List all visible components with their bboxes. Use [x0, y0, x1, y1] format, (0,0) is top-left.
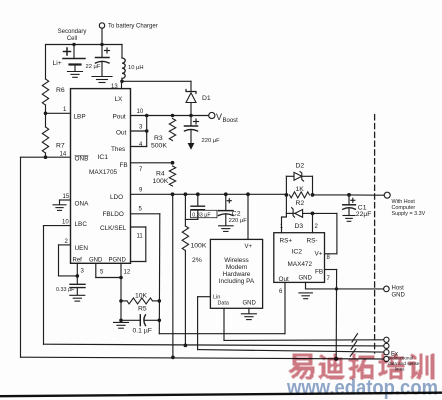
wire: UEN to Ref	[59, 239, 78, 276]
pin 6 label IC2 Out	[279, 289, 283, 295]
wire: Ref pin chain	[77, 263, 84, 284]
wire: LX to pin 13	[111, 81, 122, 90]
svg-text:GND: GND	[299, 276, 313, 282]
terminal: ONB line	[384, 356, 389, 361]
svg-text:100K: 100K	[191, 243, 207, 250]
svg-text:Cell: Cell	[67, 36, 77, 42]
wire: ONA pin 15	[60, 194, 71, 204]
node: 100K on LBO bus	[184, 344, 188, 348]
terminal: Host GND	[384, 286, 406, 299]
svg-text:IC1: IC1	[98, 154, 109, 161]
svg-text:LX: LX	[115, 96, 124, 103]
wire: IC2 FB to bus	[325, 270, 337, 359]
svg-text:Including PA: Including PA	[219, 278, 255, 285]
svg-text:Host: Host	[392, 286, 405, 292]
node: battery positive junction	[72, 43, 75, 46]
wire: supply rail to terminal	[313, 194, 384, 196]
capacitor 220uF output	[185, 116, 221, 150]
svg-text:V: V	[216, 112, 222, 122]
svg-text:Out: Out	[279, 276, 290, 283]
wire: FB rail	[131, 163, 173, 173]
svg-text:FBLDO: FBLDO	[103, 211, 124, 218]
wire: IC2 GND / Host GND	[306, 282, 384, 289]
svg-text:R4: R4	[156, 171, 165, 178]
svg-text:Ref: Ref	[73, 257, 83, 263]
label: Secondary Cell	[58, 29, 87, 42]
svg-text:100K: 100K	[153, 178, 169, 185]
svg-text:4: 4	[139, 142, 143, 148]
svg-text:RS-: RS-	[307, 238, 318, 245]
svg-text:12: 12	[124, 270, 131, 276]
resistor 100K 2%	[182, 194, 207, 345]
node: R2 left junction	[285, 193, 289, 197]
svg-text:V+: V+	[245, 244, 253, 250]
node: 100K top junction	[184, 192, 188, 196]
resistor R4 100K	[153, 166, 176, 186]
IC U2 MAX472	[274, 233, 325, 283]
node: LX junction	[120, 80, 124, 84]
ground: C1	[343, 216, 355, 222]
node: FB junction	[171, 161, 175, 165]
svg-text:1: 1	[280, 224, 284, 230]
svg-text:D3: D3	[295, 223, 304, 230]
wire: R6-R7	[45, 105, 47, 127]
node: Pout junction	[145, 114, 149, 118]
svg-text:Modem: Modem	[226, 264, 247, 271]
wire: FBLDO chain	[131, 207, 160, 334]
svg-text:MAX1705: MAX1705	[89, 169, 118, 176]
svg-text:FB: FB	[120, 162, 128, 169]
node: FBLDO-0.1uF junction	[158, 319, 162, 323]
watermark: www.edatop.com	[286, 377, 438, 400]
wire: modem Lin to Ex bus	[198, 297, 384, 352]
terminal: VBoost output	[209, 112, 238, 124]
svg-text:C2: C2	[232, 211, 241, 218]
node: D3 right junction	[311, 212, 315, 216]
resistor R5 10K	[121, 293, 159, 313]
svg-text:3: 3	[139, 125, 143, 131]
svg-text:10: 10	[137, 109, 144, 115]
wire: left divider top	[45, 45, 47, 80]
node: R3 top junction	[171, 114, 175, 118]
ground: 22uF cap	[92, 77, 112, 83]
wire: ONB bus	[21, 152, 384, 360]
svg-text:Secondary: Secondary	[58, 29, 87, 35]
svg-text:FB: FB	[315, 269, 323, 276]
node: C1 junction	[347, 193, 351, 197]
node: R5 left junction	[119, 299, 123, 303]
svg-text:PGND: PGND	[109, 257, 127, 263]
svg-text:10: 10	[62, 220, 69, 226]
diode D1	[186, 81, 211, 115]
svg-text:1K: 1K	[296, 186, 305, 193]
svg-text:7: 7	[327, 276, 331, 282]
node: modem V+ junction	[246, 192, 250, 196]
node: PGND-GND junction	[119, 276, 123, 280]
svg-text:0.1 µF: 0.1 µF	[133, 328, 152, 335]
wire: PGND pin 12	[121, 263, 131, 321]
svg-text:R3: R3	[154, 135, 163, 142]
wire: V+ link IC2 pin 8	[313, 213, 337, 261]
svg-text:7: 7	[139, 167, 143, 173]
svg-text:Li+: Li+	[53, 60, 62, 67]
wire: sense line to IC2 Out	[159, 282, 285, 333]
wire: host boundary dashed	[374, 115, 376, 353]
diode D2	[286, 163, 312, 195]
svg-text:Data: Data	[218, 301, 229, 307]
svg-text:11: 11	[137, 234, 144, 240]
node: C2 junction	[224, 192, 228, 196]
block: Wireless Modem	[210, 239, 262, 308]
svg-text:ONA: ONA	[75, 201, 90, 208]
capacitor C2	[219, 194, 248, 225]
svg-text:5: 5	[139, 207, 143, 213]
capacitor C1 22uF	[343, 195, 372, 218]
svg-text:LBC: LBC	[75, 221, 88, 228]
svg-text:R7: R7	[56, 143, 65, 150]
svg-text:UEN: UEN	[75, 245, 89, 252]
node: Ref junction	[76, 274, 80, 278]
svg-text:220 µF: 220 µF	[229, 218, 248, 224]
wire: LX to D1	[122, 80, 191, 82]
svg-text:Thes: Thes	[111, 146, 125, 153]
wire: top battery rail	[46, 44, 123, 46]
svg-text:2%: 2%	[192, 257, 202, 264]
capacitor 0.33uF on LDO	[185, 194, 217, 219]
svg-text:MAX472: MAX472	[288, 261, 313, 268]
svg-text:IC2: IC2	[292, 249, 303, 256]
terminal: LBO line	[384, 343, 389, 348]
label: bidirectional data and sense lines	[388, 356, 420, 372]
terminal: To battery Charger	[99, 23, 157, 45]
bottom border line	[0, 393, 442, 397]
capacitor 22uF input	[86, 45, 110, 76]
svg-text:V+: V+	[315, 251, 323, 258]
svg-text:D1: D1	[202, 95, 211, 102]
svg-text:0.33 µF: 0.33 µF	[192, 212, 211, 218]
svg-text:2: 2	[315, 224, 319, 230]
resistor R3 500K	[151, 119, 176, 150]
wire: pin2 IC2	[313, 213, 319, 232]
wire: R7 bottom	[45, 153, 47, 157]
svg-text:10K: 10K	[135, 293, 148, 300]
terminal: host supply	[384, 192, 425, 217]
terminal: Ex line	[384, 350, 398, 358]
resistor R6	[42, 79, 65, 105]
svg-text:Supply = 3.3V: Supply = 3.3V	[392, 211, 426, 217]
pin 3 label	[139, 125, 143, 131]
wire: LBO bus	[44, 220, 384, 346]
svg-text:LDO: LDO	[110, 194, 123, 201]
wire: VBoost rail	[131, 115, 209, 117]
svg-text:CLK/SEL: CLK/SEL	[100, 225, 127, 232]
svg-text:ONB: ONB	[75, 156, 89, 163]
watermark: red CJK text	[289, 354, 435, 380]
wire: bus break slashes	[350, 334, 357, 357]
svg-text:5: 5	[100, 270, 104, 276]
resistor R7	[42, 127, 65, 153]
svg-text:Out: Out	[116, 130, 127, 137]
svg-text:Wireless: Wireless	[224, 257, 249, 264]
battery B1 Li+ cell	[53, 45, 86, 71]
wire: Out/Thes tie to Pout	[131, 116, 147, 147]
ground: PGND	[114, 322, 129, 328]
node: 0.33uF-2 top junction	[196, 192, 200, 196]
ground: battery negative	[68, 72, 83, 78]
svg-text:Boost: Boost	[223, 118, 239, 124]
svg-text:To battery Charger: To battery Charger	[108, 24, 158, 30]
resistor R2 1K	[290, 186, 310, 207]
svg-text:GND: GND	[243, 301, 257, 307]
ground: ONA	[53, 205, 66, 211]
wire: LBP pin 1	[46, 107, 71, 113]
svg-text:10 µH: 10 µH	[128, 65, 144, 71]
svg-text:0.33 µF: 0.33 µF	[56, 287, 75, 293]
IC U1 MAX1705	[71, 89, 131, 264]
svg-text:8: 8	[327, 255, 331, 261]
svg-text:15: 15	[63, 194, 70, 200]
svg-text:R6: R6	[56, 87, 65, 94]
inductor L1 10uH	[122, 45, 144, 82]
svg-text:500K: 500K	[151, 143, 167, 150]
wire: LDO rail to ONB bus	[172, 194, 174, 357]
svg-text:RS+: RS+	[280, 238, 293, 245]
svg-text:14: 14	[60, 152, 67, 158]
svg-text:2: 2	[65, 239, 69, 245]
wire: CLK/SEL pin 11	[131, 227, 146, 262]
node: LBP junction	[44, 112, 48, 116]
wire: modem Data to host bus	[224, 308, 384, 340]
node: 22uF cap top junction	[100, 43, 103, 46]
node: R7 bottom junction	[44, 155, 48, 159]
ground: C2	[219, 226, 234, 232]
wire: V+ to modem	[247, 194, 249, 239]
svg-text:LBP: LBP	[74, 114, 86, 121]
wire: GND pin 5	[96, 263, 121, 277]
node: FBLDO-R5 junction	[158, 299, 162, 303]
node: D1 output junction	[189, 114, 193, 118]
svg-text:D2: D2	[296, 163, 305, 170]
svg-text:3: 3	[81, 269, 85, 275]
ground: Ref cap	[70, 295, 85, 301]
node: 0.1uF left junction	[119, 319, 123, 323]
svg-text:1: 1	[63, 107, 67, 113]
node: FB-hostgnd crossing	[335, 287, 338, 290]
wire: LDO output rail	[131, 188, 287, 195]
svg-text:9: 9	[139, 188, 143, 194]
node: pin3 tie	[145, 129, 149, 133]
node: FB on ONB bus	[334, 357, 338, 361]
svg-text:GND: GND	[89, 257, 103, 263]
node: R4 bottom junction	[171, 192, 175, 196]
ground: modem GND	[241, 308, 256, 319]
svg-text:6: 6	[279, 289, 283, 295]
svg-text:22 µF: 22 µF	[86, 64, 101, 70]
ground: IC2 GND	[299, 293, 313, 299]
svg-text:R5: R5	[138, 306, 147, 313]
node: on ONB bus	[171, 356, 175, 360]
wire: pin1 IC2	[280, 213, 287, 232]
terminal: data line	[384, 337, 389, 342]
capacitor 0.1uF	[121, 315, 159, 335]
svg-text:Hardware: Hardware	[223, 271, 251, 278]
pin 10 Pout label	[137, 109, 144, 115]
svg-text:R2: R2	[296, 200, 305, 207]
node: R2 right junction	[311, 193, 315, 197]
svg-text:220 µF: 220 µF	[202, 138, 221, 144]
svg-text:GND: GND	[392, 293, 406, 299]
pin 4 label	[139, 142, 143, 148]
diode D3	[286, 195, 312, 230]
capacitor 0.33uF Ref	[56, 284, 85, 294]
svg-text:www.edatop.com: www.edatop.com	[286, 377, 438, 400]
svg-text:22µF: 22µF	[356, 211, 372, 218]
svg-text:Pout: Pout	[113, 114, 126, 121]
